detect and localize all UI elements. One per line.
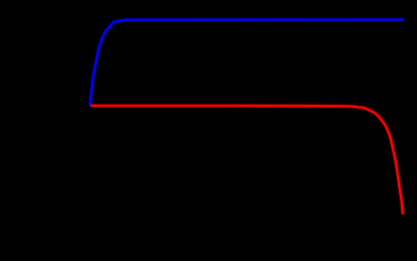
blue curve (rising saturating) [90,20,404,106]
red curve (flat then dropping) [91,106,403,215]
